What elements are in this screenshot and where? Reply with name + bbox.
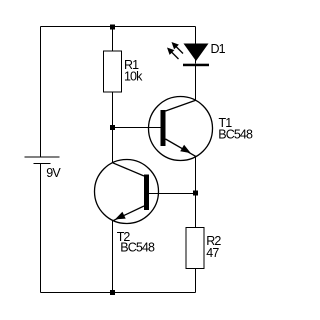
svg-text:10k: 10k: [124, 69, 143, 83]
svg-text:BC548: BC548: [120, 241, 155, 255]
svg-text:D1: D1: [211, 42, 226, 56]
svg-text:9V: 9V: [46, 166, 61, 180]
svg-text:47: 47: [206, 246, 219, 260]
svg-text:BC548: BC548: [218, 127, 253, 141]
